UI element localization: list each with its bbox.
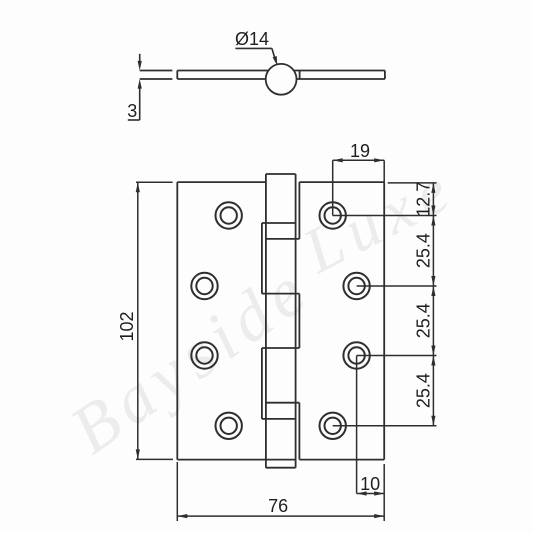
dimension 76: [177, 462, 384, 521]
top view: thickness extension line lower: [140, 78, 173, 80]
leader hole R1: [333, 215, 437, 217]
top view: thickness extension line upper: [140, 70, 173, 72]
svg-text:25.4: 25.4: [414, 373, 434, 408]
svg-text:25.4: 25.4: [414, 303, 434, 338]
barrel left inner vertical: [265, 174, 267, 468]
right leaf cut vertical seg3: [298, 294, 300, 348]
leader for O14: [235, 48, 277, 65]
right leaf cut vertical seg1: [298, 182, 300, 239]
knuckle divider H1: [262, 222, 296, 224]
right leaf cut vertical seg5: [298, 403, 300, 460]
knuckle divider H5: [266, 402, 300, 404]
svg-text:12.7: 12.7: [414, 182, 434, 217]
dimension 3 arrow lower + foot: [139, 85, 141, 120]
plate bottom edge left part: [177, 459, 295, 461]
leader hole R3: [357, 355, 437, 357]
hole R2: [343, 273, 369, 299]
svg-text:Ø14: Ø14: [235, 29, 269, 49]
leader hole R2: [357, 285, 437, 287]
plate bottom edge right part: [299, 459, 384, 461]
barrel right inner vertical: [295, 174, 297, 468]
hole L2: [191, 273, 217, 299]
knuckle divider H2: [266, 238, 300, 240]
svg-text:Luxe: Luxe: [291, 151, 467, 287]
hole R1: [320, 202, 346, 228]
svg-text:25.4: 25.4: [414, 233, 434, 268]
hole R4: [320, 413, 346, 439]
top view: right leaf inner vertical edge: [299, 71, 301, 80]
hole L4: [216, 413, 242, 439]
svg-text:102: 102: [117, 311, 137, 341]
svg-text:Bayside: Bayside: [57, 249, 324, 468]
svg-text:76: 76: [268, 496, 288, 516]
knuckle divider H3: [262, 293, 300, 295]
chain arrows: [431, 183, 435, 193]
plate top edge left part: [177, 181, 266, 183]
top view: knuckle circle O14: [266, 64, 297, 95]
top view: right leaf bottom edge: [296, 78, 385, 80]
hole L1: [216, 202, 242, 228]
top view: left leaf top edge: [177, 70, 269, 72]
dimension 102: [136, 182, 173, 459]
plate top edge right part: [299, 181, 384, 183]
plate right edge: [383, 182, 385, 460]
top view: left leaf bottom edge: [177, 78, 266, 80]
barrel top cap: [266, 173, 296, 175]
hole R3: [343, 342, 369, 368]
knuckle divider H4: [262, 347, 300, 349]
svg-text:10: 10: [360, 474, 380, 494]
knuckle2 left vertical: [261, 223, 263, 294]
top view: left leaf left edge: [176, 71, 178, 80]
dimension 10: [357, 356, 385, 496]
front view plate: [177, 182, 384, 460]
plate left edge: [176, 182, 178, 460]
leader hole R4: [333, 425, 437, 427]
right chain dimension: [333, 183, 437, 426]
barrel / knuckles: [262, 174, 300, 468]
tick at plate top: [388, 182, 437, 184]
dimension 19: [333, 158, 385, 215]
knuckle4 left vertical: [261, 348, 263, 419]
dimension 3 arrow upper: [128, 54, 142, 120]
knuckle divider H6: [262, 418, 296, 420]
hole L3: [191, 342, 217, 368]
chain dimension line: [432, 183, 434, 426]
top view: right leaf top edge: [293, 70, 385, 72]
screw holes: [191, 202, 369, 439]
top view: right leaf right end edge: [384, 71, 386, 80]
svg-text:19: 19: [350, 141, 370, 161]
barrel bottom cap: [266, 467, 296, 469]
svg-text:3: 3: [127, 101, 137, 121]
